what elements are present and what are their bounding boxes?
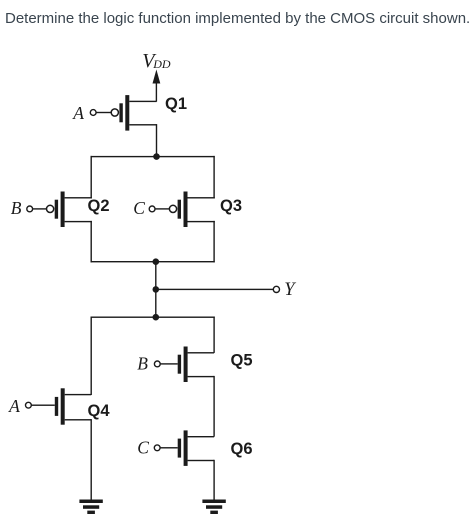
transistor Q1 (PMOS): [96, 95, 157, 131]
wire output vertical: [155, 262, 156, 318]
wire Q2 source to mid rail: [91, 221, 92, 263]
input terminal A (Q4): [26, 402, 32, 408]
svg-text:C: C: [133, 198, 145, 218]
svg-text:Q3: Q3: [220, 197, 242, 215]
svg-text:Q4: Q4: [88, 402, 111, 420]
ground (left): [79, 500, 102, 515]
transistor Q3 (PMOS): [155, 192, 215, 228]
wire mid PMOS rail: [91, 261, 215, 262]
wire Q5 source to Q6 drain: [213, 376, 214, 437]
svg-text:A: A: [8, 396, 20, 416]
transistor Q5 (NMOS): [160, 347, 214, 383]
ground (right): [202, 500, 225, 515]
output terminal Y: [273, 286, 279, 292]
node output junction: [153, 286, 160, 293]
title text: [5, 10, 470, 27]
input terminal B (Q2): [27, 206, 33, 212]
wire Q4 source to ground: [91, 419, 92, 500]
wire output to Y: [156, 289, 273, 290]
node NMOS rail junction: [153, 314, 160, 321]
input terminal C (Q6): [154, 445, 160, 451]
VDD arrow: [153, 70, 161, 102]
wire rail to Q3 drain: [213, 156, 214, 199]
wire rail to Q2 drain: [91, 156, 92, 199]
wire Q3 source to mid rail: [213, 221, 214, 263]
transistor Q2 (PMOS): [33, 192, 92, 228]
wire top PMOS rail: [91, 156, 215, 157]
node top rail junction: [153, 153, 160, 160]
input terminal A (Q1): [90, 110, 96, 116]
svg-text:DD: DD: [152, 57, 171, 71]
wire rail to Q5 drain: [213, 317, 214, 353]
transistor Q4 (NMOS): [31, 388, 91, 424]
wire rail to Q4 drain: [91, 317, 92, 396]
wire Q6 source to ground: [213, 460, 214, 500]
input terminal C (Q3): [149, 206, 155, 212]
svg-text:Q1: Q1: [165, 95, 187, 113]
svg-text:A: A: [72, 103, 84, 123]
svg-text:Y: Y: [284, 280, 296, 300]
transistor Q6 (NMOS): [160, 430, 214, 466]
svg-text:Q5: Q5: [231, 352, 253, 370]
wire NMOS top rail: [91, 317, 215, 318]
svg-text:C: C: [137, 437, 149, 457]
svg-text:B: B: [11, 198, 22, 218]
wire Q1 source to top rail: [156, 124, 157, 157]
node mid rail junction: [153, 258, 160, 265]
VDD label: [142, 50, 171, 72]
svg-text:Q6: Q6: [231, 440, 253, 458]
svg-text:Q2: Q2: [88, 197, 110, 215]
svg-text:B: B: [137, 354, 148, 374]
input terminal B (Q5): [154, 361, 160, 367]
